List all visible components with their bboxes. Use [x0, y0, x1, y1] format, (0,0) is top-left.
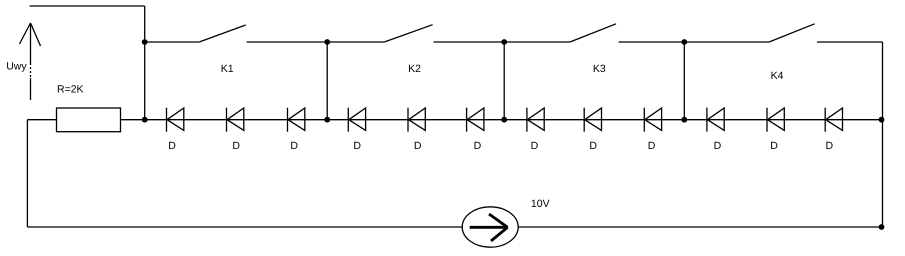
wire vertical link x=504	[503, 42, 505, 120]
node switch-row x=327	[324, 39, 330, 45]
diode D3	[288, 108, 305, 132]
diode D8	[584, 108, 601, 132]
Uwy arrowhead left stroke	[20, 23, 31, 44]
node diode-rail right	[879, 117, 885, 123]
switch K4 left contact line	[684, 41, 769, 43]
diode D6	[467, 108, 484, 132]
svg-text:D: D	[714, 140, 722, 152]
wire bottom left segment	[27, 226, 462, 228]
wire vertical x=145 top wire to switch row	[144, 6, 146, 42]
diode D12	[825, 108, 842, 132]
diode D1	[167, 108, 184, 132]
svg-text:D: D	[290, 140, 298, 152]
wire resistor left lead	[27, 119, 56, 121]
wire left vertical	[26, 120, 28, 227]
current source ellipse	[462, 207, 518, 247]
svg-text:D: D	[232, 140, 240, 152]
wire vertical link x=684	[683, 42, 685, 120]
svg-text:R=2K: R=2K	[57, 84, 84, 96]
switch K2 blade	[384, 25, 432, 42]
svg-text:D: D	[353, 140, 361, 152]
switch K3 blade	[570, 24, 616, 42]
wire vertical link x=327	[326, 42, 328, 120]
svg-text:D: D	[826, 140, 834, 152]
svg-text:D: D	[414, 140, 422, 152]
diode D2	[227, 108, 244, 132]
switch K2 left contact line	[327, 41, 384, 43]
current source arrow lower barb	[491, 227, 508, 241]
Uwy voltage arrow line lower solid	[30, 78, 32, 100]
diode D4	[348, 108, 365, 132]
diode D10	[707, 108, 724, 132]
wire right vertical	[882, 42, 884, 227]
switch K4 blade	[769, 24, 815, 42]
diode D9	[644, 108, 661, 132]
wire diode rail	[145, 119, 882, 121]
wire resistor right lead	[121, 119, 145, 121]
svg-text:D: D	[770, 140, 778, 152]
current source arrow shaft	[470, 226, 506, 229]
diode D7	[527, 108, 544, 132]
node diode-rail x=504	[501, 117, 507, 123]
switch K4 right contact line	[817, 41, 883, 43]
switch K1 right contact line	[247, 41, 328, 43]
wire vertical x=145 switch row to diode rail	[144, 42, 146, 120]
diode D11	[767, 108, 784, 132]
diode D5	[408, 108, 425, 132]
node diode-rail x=327	[324, 117, 330, 123]
svg-text:D: D	[531, 140, 539, 152]
svg-text:Uwy: Uwy	[6, 61, 27, 73]
svg-text:D: D	[168, 140, 176, 152]
svg-text:D: D	[648, 140, 656, 152]
switch K1 blade	[199, 25, 246, 42]
node switch-row x=684	[681, 39, 687, 45]
switch K2 right contact line	[434, 41, 505, 43]
switch K3 left contact line	[504, 41, 570, 43]
switch K1 left contact line	[145, 41, 200, 43]
node diode-rail x=145	[142, 117, 148, 123]
resistor R=2K body	[57, 108, 121, 132]
current source arrow upper barb	[489, 214, 508, 227]
node bottom right corner	[879, 224, 885, 230]
svg-text:K1: K1	[221, 63, 234, 75]
svg-text:K4: K4	[771, 70, 784, 82]
wire top horizontal (Uwy tap to first vertical)	[30, 5, 145, 7]
switch K3 right contact line	[619, 41, 685, 43]
svg-text:10V: 10V	[531, 198, 550, 210]
node diode-rail x=684	[681, 117, 687, 123]
Uwy voltage arrow line upper solid	[30, 23, 32, 63]
svg-text:D: D	[474, 140, 482, 152]
wire bottom right segment	[518, 226, 881, 228]
svg-text:K2: K2	[408, 63, 421, 75]
svg-text:K3: K3	[593, 63, 606, 75]
Uwy voltage arrow line dotted	[30, 63, 32, 78]
svg-text:D: D	[589, 140, 597, 152]
node switch-row x=504	[501, 39, 507, 45]
Uwy arrowhead right stroke	[31, 23, 41, 46]
node switch-row x=145	[142, 39, 148, 45]
